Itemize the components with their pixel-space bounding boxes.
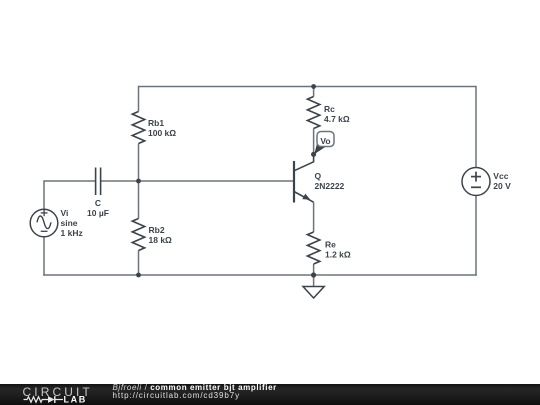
svg-text:sine: sine — [61, 218, 78, 228]
label Vcc 20 V — [493, 171, 511, 191]
footer bar — [0, 384, 540, 405]
svg-text:Vcc: Vcc — [493, 171, 508, 181]
resistor Re — [307, 232, 319, 264]
wire Rb1 to mid node — [138, 144, 140, 182]
wire Vi bottom to bottom rail — [43, 237, 45, 276]
wire Vcc top (top rail to Vcc) — [475, 86, 477, 168]
svg-text:Re: Re — [325, 240, 336, 250]
node junction Rc/top rail — [311, 84, 316, 89]
resistor Rc — [307, 97, 319, 129]
voltage source Vcc — [462, 168, 490, 196]
node junction ground/bottom rail — [311, 272, 316, 277]
label Rb2 18 kOhm — [149, 225, 173, 245]
svg-text:C: C — [95, 198, 101, 208]
svg-text:Rb1: Rb1 — [148, 118, 164, 128]
capacitor C — [96, 168, 101, 196]
svg-text:LAB: LAB — [64, 395, 87, 405]
voltage source Vi (sine) — [30, 209, 58, 237]
wire Vcc bottom to bottom rail — [475, 196, 477, 276]
resistor Rb2 — [132, 219, 144, 251]
svg-text:Vo: Vo — [320, 136, 330, 146]
svg-text:10 µF: 10 µF — [87, 208, 109, 218]
label Rb1 100 kOhm — [148, 118, 176, 138]
wire Rc top (top rail to Rc) — [313, 87, 315, 97]
svg-text:Rc: Rc — [324, 104, 335, 114]
svg-text:1.2 kΩ: 1.2 kΩ — [325, 250, 351, 260]
wire Re to bottom rail — [313, 264, 315, 275]
ground — [303, 275, 324, 298]
wire Rc bottom to Vo node — [313, 129, 315, 155]
node Vo junction (collector) — [311, 152, 316, 157]
footer caption text — [113, 384, 277, 400]
wire top rail — [139, 86, 477, 88]
svg-text:100 kΩ: 100 kΩ — [148, 128, 176, 138]
wire bottom rail — [43, 274, 477, 276]
svg-text:20 V: 20 V — [493, 181, 511, 191]
svg-text:Rb2: Rb2 — [149, 225, 165, 235]
svg-text:1 kHz: 1 kHz — [61, 228, 83, 238]
wire Vi top to mid wire — [43, 181, 45, 209]
wire left branch top (top rail to Rb1) — [138, 86, 140, 112]
wire mid: Vi corner to capacitor left plate — [43, 180, 95, 182]
label Vi sine 1 kHz — [61, 208, 83, 238]
svg-text:4.7 kΩ: 4.7 kΩ — [324, 114, 350, 124]
svg-text:Vi: Vi — [61, 208, 69, 218]
wire Rb2 to bottom rail — [138, 251, 140, 276]
wire mid: capacitor right plate to transistor base — [101, 180, 294, 182]
node junction Rb1/C/Rb2/base — [136, 179, 141, 184]
node junction Rb2/bottom rail — [136, 273, 141, 278]
svg-text:18 kΩ: 18 kΩ — [149, 235, 173, 245]
label Re 1.2 kOhm — [325, 240, 351, 260]
wire mid node to Rb2 — [138, 181, 140, 219]
svg-text:Q: Q — [315, 171, 322, 181]
label C 10 uF — [87, 198, 109, 218]
node Vo flag — [314, 132, 334, 155]
transistor Q 2N2222 (NPN) — [294, 154, 314, 202]
CircuitLab logo — [15, 384, 120, 405]
label Q 2N2222 — [315, 171, 345, 191]
label Rc 4.7 kOhm — [324, 104, 350, 124]
wire emitter to Re — [313, 202, 315, 232]
resistor Rb1 — [132, 112, 144, 144]
svg-text:2N2222: 2N2222 — [315, 181, 345, 191]
